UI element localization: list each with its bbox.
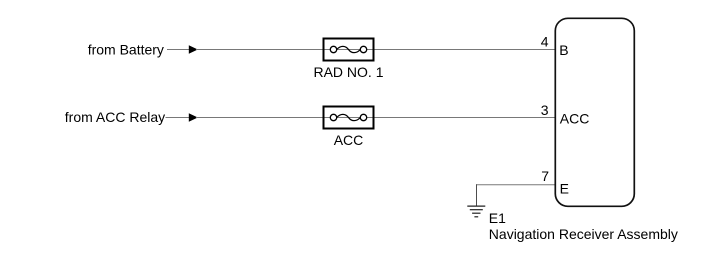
wire: vertical drop to ground E1	[476, 184, 478, 206]
wire: battery lead to arrow	[167, 49, 190, 51]
wire: ACC relay lead to arrow	[166, 117, 191, 119]
svg-text:from Battery: from Battery	[88, 42, 164, 58]
svg-text:ACC: ACC	[334, 132, 364, 148]
wire: arrow to fuse ACC and through to pin 3	[196, 117, 555, 119]
fuse RAD NO. 1 body	[324, 39, 374, 61]
svg-text:RAD NO. 1: RAD NO. 1	[313, 64, 383, 80]
svg-text:E: E	[560, 180, 569, 196]
svg-text:3: 3	[541, 102, 549, 118]
fuse ACC right terminal	[360, 114, 366, 120]
fuse ACC left terminal	[330, 114, 336, 120]
svg-text:Navigation Receiver Assembly: Navigation Receiver Assembly	[489, 226, 678, 242]
svg-text:B: B	[559, 42, 568, 58]
ground E1 symbol	[467, 206, 485, 217]
wire: arrow to fuse RAD NO. 1 and through to pin 4	[196, 49, 555, 51]
svg-text:from ACC Relay: from ACC Relay	[65, 109, 165, 125]
fuse ACC element (S-curve)	[337, 114, 361, 120]
fuse RAD NO. 1 element (S-curve)	[337, 46, 361, 52]
connector U1: Navigation Receiver Assembly body	[555, 18, 634, 206]
svg-text:ACC: ACC	[560, 110, 590, 126]
wire: ground run to pin 7	[476, 184, 555, 186]
fuse RAD NO. 1 right terminal	[360, 46, 366, 52]
arrow: ACC flow direction	[189, 113, 198, 121]
fuse RAD NO. 1 left terminal	[330, 46, 336, 52]
svg-text:7: 7	[541, 168, 549, 184]
fuse ACC body	[324, 107, 374, 129]
svg-text:E1: E1	[489, 210, 506, 226]
arrow: battery flow direction	[189, 45, 198, 53]
svg-text:4: 4	[541, 33, 549, 49]
